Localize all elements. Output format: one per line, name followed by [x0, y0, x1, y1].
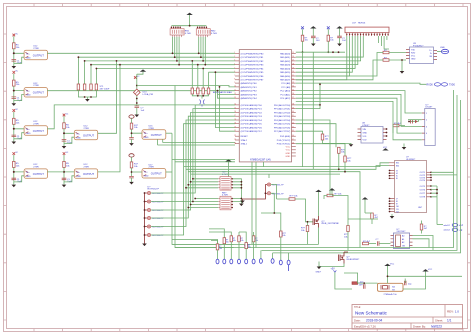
svg-text:XTAL1: XTAL1	[241, 143, 248, 146]
junction dots RN3 RN4	[185, 178, 242, 209]
svg-text:PA3 (AD3): PA3 (AD3)	[280, 64, 290, 67]
LED indicator column D1-D6	[142, 186, 164, 246]
svg-text:(AIN4/INT4) PE4: (AIN4/INT4) PE4	[241, 97, 258, 100]
svg-text:RXD: RXD	[411, 53, 416, 55]
IC U? 24C256	[391, 229, 413, 249]
svg-text:Sheet:: Sheet:	[435, 319, 443, 323]
svg-text:18: 18	[234, 119, 236, 121]
svg-text:GND?: GND?	[316, 271, 322, 273]
svg-text:PG4 (TOSC1): PG4 (TOSC1)	[277, 144, 291, 146]
ground bottom	[316, 267, 322, 274]
svg-text:TXD: TXD	[411, 50, 416, 52]
resistor under gate	[301, 221, 309, 244]
svg-text:wlot12: wlot12	[444, 229, 451, 232]
svg-text:13: 13	[234, 97, 236, 99]
svg-text:23: 23	[234, 139, 236, 141]
pin header U10	[345, 23, 389, 37]
svg-text:35: 35	[292, 89, 294, 91]
cap 22p right	[405, 281, 413, 286]
temp sensor U? DS18B20	[422, 104, 435, 145]
svg-text:43: 43	[292, 123, 294, 125]
svg-text:(OC1/PWM1/INT1) PB1: (OC1/PWM1/INT1) PB1	[241, 57, 265, 59]
VCC arrow above RN1 RN2	[171, 13, 206, 27]
svg-text:GND: GND	[363, 132, 368, 134]
svg-text:2?MHz4k? Hi: 2?MHz4k? Hi	[384, 294, 398, 296]
wire group: bottom bus	[172, 90, 461, 253]
svg-text:EasyEDA v5.7.26: EasyEDA v5.7.26	[354, 325, 376, 329]
svg-text:24: 24	[234, 143, 236, 145]
svg-text:4: 4	[234, 64, 235, 66]
VCC arrow above crystal	[384, 264, 462, 284]
VCC and resistor right of Q1	[324, 188, 342, 199]
svg-text:VCC: VCC	[286, 147, 291, 149]
svg-text:GND: GND	[285, 153, 290, 155]
resistor far right	[344, 219, 349, 240]
svg-text:VCC: VCC	[390, 264, 395, 266]
svg-text:30: 30	[292, 71, 294, 73]
svg-text:USB: USB	[440, 47, 445, 49]
wires crystal	[344, 273, 405, 285]
resistor network RN3 vertical	[218, 172, 233, 191]
svg-text:PA2 (AD2): PA2 (AD2)	[280, 60, 290, 63]
svg-text:PF4 (ADC4/TD4): PF4 (ADC4/TD4)	[274, 119, 291, 122]
svg-text:ivall123: ivall123	[431, 325, 442, 329]
resistors near FT232	[383, 50, 406, 71]
svg-text:PC4 (A12): PC4 (A12)	[280, 97, 290, 100]
resistor R gate drive	[289, 196, 313, 222]
svg-text:(ICP5/SCANDIN) PD5: (ICP5/SCANDIN) PD5	[241, 123, 263, 126]
svg-text:A1: A1	[402, 238, 404, 241]
svg-text:PF1 (ADC1/TD1): PF1 (ADC1/TD1)	[274, 108, 291, 111]
resistor network RN1 4.7k	[170, 26, 191, 37]
svg-text:PC3 (A11): PC3 (A11)	[280, 93, 290, 96]
resistor 1M bottom	[352, 282, 364, 287]
MOSFET Q1	[313, 216, 340, 228]
svg-text:ATMEGA128-16AU: ATMEGA128-16AU	[213, 91, 232, 94]
ground under U8	[402, 144, 407, 150]
svg-text:PA7 (AD7): PA7 (AD7)	[280, 79, 290, 82]
svg-text:New Schematic: New Schematic	[355, 311, 388, 316]
svg-text:33: 33	[292, 82, 294, 84]
resistor R right mid	[365, 213, 379, 224]
USB connector	[437, 47, 449, 54]
wires MCU right to FT232	[296, 53, 383, 80]
wire top bus line c	[85, 60, 235, 62]
button cell S2 with pull-up resistor, cap and OUTPUT port	[12, 71, 48, 106]
wire drops to RGB resistor cluster	[78, 57, 96, 84]
svg-text:9: 9	[234, 82, 235, 84]
net flag red X pot column	[134, 74, 140, 89]
svg-text:(AIN3/INT3) PE3: (AIN3/INT3) PE3	[241, 93, 258, 96]
wire Q2 source to gnd	[319, 262, 344, 267]
junction dots row1	[332, 51, 339, 53]
wires into RN3/RN4 left	[186, 179, 241, 208]
junction dots staircase	[215, 71, 221, 91]
wire output S1 to MCU	[47, 52, 235, 54]
svg-text:10k: 10k	[219, 248, 222, 250]
svg-text:47: 47	[292, 139, 294, 141]
svg-text:1uF: 1uF	[141, 110, 145, 112]
svg-text:2018-09-04: 2018-09-04	[366, 319, 383, 323]
svg-text:OUT8: OUT8	[420, 197, 426, 199]
svg-text:ROYNG-TP: ROYNG-TP	[148, 189, 160, 191]
+5V blue flag	[331, 269, 353, 289]
svg-text:A0: A0	[402, 235, 404, 238]
svg-text:PC0 (A8): PC0 (A8)	[281, 82, 290, 85]
wire riser to PC rows	[218, 91, 236, 99]
IC U9 FT232RL	[406, 43, 437, 64]
wire output S3 up and right to MCU	[47, 105, 235, 129]
net port -12	[444, 228, 463, 232]
wire MCU PA0 long right	[296, 51, 345, 53]
net port +12	[437, 223, 464, 227]
test pad row with series resistors	[216, 231, 290, 271]
svg-text:R? 4k7: R? 4k7	[363, 241, 371, 243]
svg-text:6: 6	[234, 71, 235, 73]
svg-text:PF6 (ADC6/TD6): PF6 (ADC6/TD6)	[274, 126, 291, 129]
svg-text:Drawn By:: Drawn By:	[413, 325, 426, 329]
svg-text:41: 41	[292, 115, 294, 117]
svg-text:36: 36	[292, 93, 294, 95]
svg-text:7: 7	[234, 75, 235, 77]
svg-text:(ICP1/SCANDIN) PD1: (ICP1/SCANDIN) PD1	[241, 108, 263, 111]
VCC arrow right bottom	[403, 269, 433, 289]
wire I2C bridge right of MCU	[296, 84, 320, 108]
svg-text:VCC: VCC	[428, 269, 433, 271]
svg-text:27: 27	[292, 60, 294, 62]
wire hband short f	[175, 161, 235, 163]
diode cluster	[408, 120, 418, 124]
svg-text:GND: GND	[144, 176, 149, 178]
svg-text:HDR16: HDR16	[358, 23, 366, 25]
svg-text:GND: GND	[411, 59, 416, 61]
svg-text:PA6 (AD6): PA6 (AD6)	[280, 75, 290, 78]
svg-text:RESET: RESET	[241, 136, 249, 138]
svg-text:+5V: +5V	[331, 269, 336, 271]
wire hband a	[184, 163, 389, 167]
svg-text:VCC: VCC	[411, 56, 416, 58]
svg-text:PF0 (ADC0/TD0): PF0 (ADC0/TD0)	[274, 104, 291, 107]
svg-text:PA5 (AD5): PA5 (AD5)	[280, 71, 290, 74]
svg-text:OUT5: OUT5	[420, 186, 426, 188]
net flag cell U17 with resistor, cap, OUTPUT port	[129, 154, 172, 185]
wire hband b	[186, 166, 389, 170]
wire MCU bottom drop 2	[255, 162, 257, 248]
button cell S6 with pull-up resistor, cap and OUTPUT port	[62, 152, 98, 187]
cap 22p left	[360, 282, 365, 289]
svg-text:45: 45	[292, 130, 294, 132]
svg-text:PF7 (ADC7/TD7): PF7 (ADC7/TD7)	[274, 130, 291, 133]
svg-text:39: 39	[292, 107, 294, 109]
svg-text:PF2 (ADC2/TD2): PF2 (ADC2/TD2)	[274, 111, 291, 114]
svg-text:(OC6/PWM6/INT6) PB6: (OC6/PWM6/INT6) PB6	[241, 76, 265, 78]
svg-text:PF3 (ADC3/TD3): PF3 (ADC3/TD3)	[274, 115, 291, 118]
pull-up resistor cluster mid	[191, 60, 210, 107]
svg-text:PA1 (AD1): PA1 (AD1)	[280, 56, 290, 59]
svg-text:D-: D-	[430, 53, 432, 55]
wire staircase vertical B	[220, 87, 236, 131]
wires header U10 to MCU right pins	[296, 36, 389, 80]
svg-text:26: 26	[292, 56, 294, 58]
wire long vertical from RC pair 1	[302, 52, 304, 166]
wire output S2 to MCU	[47, 90, 235, 92]
wire bottom bus 4	[273, 100, 461, 253]
VCC arrow above pot	[137, 69, 146, 74]
VCC flag right mid	[362, 197, 368, 213]
MCU U4 ATMEGA128	[234, 50, 296, 162]
svg-text:GND: GND	[144, 137, 149, 139]
wire pad feed b	[211, 232, 254, 244]
button cell S1 with pull-up resistor, cap and OUTPUT port	[12, 33, 48, 68]
svg-text:PG2 (ALE): PG2 (ALE)	[280, 135, 291, 138]
svg-text:(ICP2/SCANDIN) PD2: (ICP2/SCANDIN) PD2	[241, 111, 263, 114]
wires RN right common	[233, 179, 242, 204]
svg-text:32: 32	[292, 79, 294, 81]
svg-text:12: 12	[234, 93, 236, 95]
wire pad feed a	[209, 229, 231, 238]
wire bottom bus 2	[175, 90, 454, 248]
wire long vertical from RC pair 2	[312, 52, 314, 169]
svg-text:(OC4/PWM4/INT4) PB4: (OC4/PWM4/INT4) PB4	[241, 68, 265, 70]
svg-text:48: 48	[292, 143, 294, 145]
title block	[352, 305, 463, 330]
svg-text:LCDA_PM: LCDA_PM	[143, 93, 154, 96]
wires LED column risers to MCU	[151, 105, 235, 235]
wires transistor area	[319, 196, 379, 251]
button cell S5 with pull-up resistor, cap and OUTPUT port	[62, 113, 98, 148]
svg-text:34: 34	[292, 86, 294, 88]
svg-text:OUT4: OUT4	[420, 180, 426, 182]
svg-text:(ICP4/SCANDIN) PD4: (ICP4/SCANDIN) PD4	[241, 119, 263, 122]
svg-text:3: 3	[234, 60, 235, 62]
wire staircase vertical A	[215, 72, 235, 127]
svg-text:40: 40	[292, 111, 294, 113]
pull-down resistor cascade right of MCU	[296, 83, 354, 172]
svg-text:PG3 (TOSC2): PG3 (TOSC2)	[277, 140, 291, 142]
svg-text:15: 15	[234, 107, 236, 109]
svg-text:PA4 (AD4): PA4 (AD4)	[280, 67, 290, 70]
svg-text:10k: 10k	[282, 235, 285, 237]
svg-text:IRLB24PBF?: IRLB24PBF?	[347, 259, 361, 261]
wire output S6 up to bus	[98, 65, 120, 172]
wire MCU bottom pin to bus	[263, 162, 265, 167]
wires RN1 RN2 bottoms to bus	[173, 37, 206, 65]
cap left of EEPROM	[376, 239, 391, 246]
wires LED column 2 right	[261, 185, 289, 232]
wire vbus from U15 output down	[172, 133, 234, 244]
svg-text:17: 17	[234, 115, 236, 117]
resistor network RN2 4.7k	[196, 26, 217, 37]
wire bottom bus 3	[262, 95, 458, 250]
wire XTAL1 long	[163, 139, 235, 142]
wire group: MCU underside	[252, 52, 336, 247]
svg-text:(AIN1/INT1) PE1: (AIN1/INT1) PE1	[241, 86, 258, 89]
svg-text:29: 29	[292, 67, 294, 69]
driver IC U11 ULN2803	[389, 157, 432, 214]
svg-text:REV: 1.0: REV: 1.0	[447, 310, 459, 314]
resistor R pullup near OUT column	[420, 221, 428, 234]
svg-text:PF5 (ADC5/TD5): PF5 (ADC5/TD5)	[274, 123, 291, 126]
wire hband c	[188, 172, 360, 248]
svg-text:4.7kΩ: 4.7kΩ	[185, 33, 191, 35]
wire output S4 to col2	[47, 171, 63, 173]
svg-text:(AIN0/INT0) PE0: (AIN0/INT0) PE0	[241, 82, 258, 85]
svg-text:(OC5/PWM5/INT5) PB5: (OC5/PWM5/INT5) PB5	[241, 72, 265, 74]
svg-text:1/1: 1/1	[447, 319, 452, 323]
svg-text:2: 2	[426, 120, 427, 122]
svg-text:RXD0: RXD0	[427, 85, 434, 87]
svg-text:25: 25	[292, 52, 294, 54]
svg-text:VCC: VCC	[383, 147, 388, 149]
resistor network RN4 vertical	[218, 192, 233, 210]
resistor cluster X1	[77, 84, 110, 102]
svg-text:OUT7: OUT7	[420, 193, 426, 195]
svg-text:VCC: VCC	[286, 150, 291, 152]
svg-text:8: 8	[234, 79, 235, 81]
svg-text:(OC3/PWM3/INT3) PB3: (OC3/PWM3/INT3) PB3	[241, 65, 265, 67]
MOSFET Q2 bottom	[339, 252, 361, 264]
svg-text:2: 2	[234, 56, 235, 58]
svg-text:14: 14	[234, 104, 236, 106]
svg-text:(AIN2/INT2) PE2: (AIN2/INT2) PE2	[241, 90, 258, 93]
svg-text:10k: 10k	[233, 240, 236, 242]
wire group: left cell outputs and top bus	[47, 53, 235, 244]
ground FT232	[400, 71, 405, 74]
wire top bus line b	[78, 56, 235, 58]
svg-text:(ICP3/SCANDIN) PD3: (ICP3/SCANDIN) PD3	[241, 115, 263, 118]
button cell S3 with pull-up resistor, cap and OUTPUT port	[12, 109, 48, 144]
svg-text:31: 31	[292, 75, 294, 77]
svg-text:22: 22	[234, 135, 236, 137]
svg-text:42: 42	[292, 119, 294, 121]
VCC arrow under U8	[382, 147, 388, 151]
svg-text:11: 11	[234, 89, 236, 91]
svg-text:16: 16	[234, 111, 236, 113]
svg-text:44: 44	[292, 126, 294, 128]
svg-text:10k: 10k	[226, 242, 229, 244]
svg-text:TXD0: TXD0	[449, 85, 456, 87]
svg-text:38: 38	[292, 104, 294, 106]
regulator U8	[358, 123, 388, 144]
svg-text:4.7kΩ: 4.7kΩ	[211, 33, 217, 35]
svg-text:(ICP7/SCANDIN) PD7: (ICP7/SCANDIN) PD7	[241, 130, 263, 133]
junction dots RN1 RN2 drops	[172, 52, 207, 65]
pull-up resistor and decoupling cap pair at x=302.5	[301, 26, 320, 53]
svg-text:OUTPUT: OUTPUT	[151, 133, 162, 137]
svg-text:(OC2/PWM2/INT2) PB2: (OC2/PWM2/INT2) PB2	[241, 61, 265, 63]
wires into DS18B20	[296, 91, 422, 140]
wire group: bus band under MCU	[172, 160, 389, 248]
svg-text:10k: 10k	[248, 247, 251, 249]
svg-text:10k: 10k	[255, 240, 258, 242]
junction dots driver wires	[436, 189, 438, 194]
wire to band	[296, 124, 336, 148]
svg-text:Date:: Date:	[354, 319, 361, 323]
LED column 2	[240, 183, 284, 203]
pull-up resistor and decoupling cap pair at x=328.3	[327, 26, 347, 53]
VCC arrow above Q1	[315, 190, 321, 216]
wire to Q1 pull-up	[296, 120, 330, 196]
svg-text:(ICP6/SCANDIN) PD6: (ICP6/SCANDIN) PD6	[241, 126, 263, 129]
svg-text:OUTPUT: OUTPUT	[151, 172, 162, 176]
wire bottom bus 1	[172, 243, 319, 245]
svg-text:ATMEGA128? (U4): ATMEGA128? (U4)	[250, 158, 271, 161]
svg-text:(OC7/PWM7/INT7) PB7: (OC7/PWM7/INT7) PB7	[241, 80, 265, 82]
VCC arrow above RN3	[225, 159, 231, 177]
wire top bus line e	[96, 68, 235, 70]
svg-text:R? 4k7: R? 4k7	[394, 123, 402, 125]
svg-text:VIN: VIN	[363, 129, 367, 131]
svg-text:28: 28	[292, 64, 294, 66]
wires EEPROM right pins	[413, 236, 434, 251]
svg-text:1: 1	[426, 113, 427, 115]
svg-text:1: 1	[234, 52, 235, 54]
button cell S4 with pull-up resistor, cap and OUTPUT port	[12, 152, 48, 187]
svg-text:+12: +12	[459, 224, 464, 227]
svg-text:PC2 (A10): PC2 (A10)	[280, 90, 290, 93]
wire XTAL2 long	[158, 139, 236, 145]
svg-text:19: 19	[234, 123, 236, 125]
svg-text:wlot12: wlot12	[444, 224, 451, 227]
svg-text:20: 20	[234, 126, 236, 128]
resistor near U8	[393, 123, 402, 127]
wire MCU bottom drop 1	[251, 162, 253, 245]
svg-text:PA0 (AD0): PA0 (AD0)	[280, 52, 290, 55]
potentiometer U13 LCD contrast	[133, 89, 153, 117]
wires driver OUT to right verticals	[431, 172, 457, 224]
svg-text:3: 3	[426, 126, 427, 128]
svg-text:(ICP0/SCANDIN) PD0: (ICP0/SCANDIN) PD0	[241, 104, 263, 107]
svg-text:37: 37	[292, 97, 294, 99]
svg-text:10: 10	[234, 86, 236, 88]
svg-text:OUT6: OUT6	[420, 190, 426, 192]
svg-text:XTAL2: XTAL2	[241, 139, 248, 142]
wire top bus line d	[91, 64, 235, 66]
wire vbus from U17 output up-down	[175, 86, 234, 248]
wire output S5 up to bus	[98, 61, 117, 133]
wire hband short e	[172, 159, 235, 161]
resistor left of EEPROM	[363, 241, 377, 245]
wire group: vertical buses and staircase	[172, 72, 235, 247]
svg-text:4X7 10UF: 4X7 10UF	[100, 88, 111, 90]
wire top bus line f	[209, 71, 236, 73]
net port ovals RXD TXD	[296, 83, 456, 87]
crystal X1	[378, 283, 404, 296]
svg-text:(OC0/PWM0/INT0) PB0: (OC0/PWM0/INT0) PB0	[241, 53, 265, 55]
svg-text:46: 46	[292, 135, 294, 137]
svg-text:4: 4	[426, 133, 427, 135]
wire right of MCU drop to LED2	[268, 174, 270, 178]
svg-text:21: 21	[234, 130, 236, 132]
ground RN common	[239, 204, 244, 207]
svg-text:10k: 10k	[240, 240, 243, 242]
wire pot junction right	[137, 86, 235, 87]
svg-text:GND: GND	[285, 156, 290, 158]
junction dots left bus	[78, 56, 121, 69]
net flag cell U15 with resistor, cap, OUTPUT port	[129, 115, 172, 146]
wire hband d	[191, 173, 340, 175]
svg-text:TITLE:: TITLE:	[354, 307, 361, 309]
svg-text:5: 5	[234, 67, 235, 69]
svg-text:IRLB_24/27NPBF: IRLB_24/27NPBF	[322, 223, 340, 225]
svg-text:PC1 (A9): PC1 (A9)	[281, 86, 290, 89]
ground driver IC	[390, 214, 395, 219]
wire pad feed from left	[172, 240, 218, 244]
svg-text:A2: A2	[402, 241, 404, 244]
